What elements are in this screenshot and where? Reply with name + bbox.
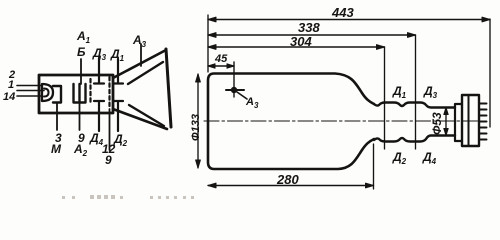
shield dashed column left <box>89 79 91 103</box>
svg-text:А2: А2 <box>73 142 88 158</box>
cathode <box>42 84 53 101</box>
extension line 280 right <box>373 144 375 189</box>
svg-text:Б: Б <box>77 45 86 59</box>
dimension line 443 <box>208 19 490 21</box>
dimension line 338 <box>208 34 416 36</box>
neck bottom profile <box>374 136 455 142</box>
svg-text:М: М <box>51 142 62 156</box>
dimension line 45 <box>208 65 234 67</box>
svg-text:443: 443 <box>331 5 354 20</box>
deflection plate D1 (top, with stem) <box>113 59 123 84</box>
modulator electrode (bracket) <box>53 86 61 103</box>
svg-text:45: 45 <box>214 53 228 65</box>
svg-text:А3: А3 <box>245 96 259 110</box>
svg-text:1: 1 <box>8 79 14 91</box>
extension line 338/section line <box>415 35 417 149</box>
A1 lead to pin 9 <box>79 103 81 131</box>
svg-text:280: 280 <box>276 172 299 187</box>
svg-text:9: 9 <box>105 153 112 167</box>
A3 pointer tick <box>237 92 247 99</box>
deflection plate D2 (bottom, with stem) <box>113 101 123 131</box>
funnel top slant <box>113 50 166 78</box>
heater lead pin 1 <box>17 90 44 92</box>
faint cropped caption remnants at bottom <box>62 195 194 199</box>
center line <box>204 120 480 122</box>
heater loop <box>44 89 49 97</box>
base cap divider <box>468 95 470 146</box>
screen coating diagonal top <box>128 62 163 84</box>
dimension line 280 <box>208 185 374 187</box>
svg-text:Д1: Д1 <box>392 84 407 100</box>
extension line left (bulb face) <box>207 15 209 72</box>
tube envelope rectangle (gun section, schematic) <box>39 75 113 113</box>
extension line 304/section line <box>384 47 386 149</box>
heater lead pin 14 <box>17 95 41 97</box>
neck top profile <box>374 103 455 108</box>
shield dashed column center, lead to pin 12 <box>108 77 110 109</box>
base cap <box>462 95 479 146</box>
lead from B label to A1 <box>80 59 82 84</box>
svg-text:Д3: Д3 <box>92 46 107 62</box>
svg-text:Ф133: Ф133 <box>190 114 202 141</box>
heater lead pin 2 <box>17 85 41 87</box>
svg-text:338: 338 <box>298 20 320 35</box>
extension line 443 right <box>489 19 491 127</box>
funnel screen face <box>166 49 171 127</box>
funnel bottom slant <box>113 109 167 129</box>
svg-text:Ф53: Ф53 <box>430 112 444 135</box>
deflection plate D4 (bottom, with stem) <box>94 101 104 131</box>
base pins <box>480 104 487 140</box>
anode A1 electrode (Sh shape) <box>74 84 86 103</box>
bulb outline <box>208 74 374 170</box>
svg-text:А1: А1 <box>76 29 91 45</box>
svg-text:304: 304 <box>290 34 312 49</box>
screen coating diagonal bottom <box>129 105 164 126</box>
svg-text:Д3: Д3 <box>423 84 438 100</box>
svg-text:А3: А3 <box>132 33 147 49</box>
svg-text:Д4: Д4 <box>422 150 437 166</box>
base skirt <box>455 104 462 141</box>
dimension line 304 <box>208 46 385 48</box>
svg-text:Д1: Д1 <box>110 47 125 63</box>
dimension line dia133 <box>197 74 199 168</box>
dimension line dia53 <box>445 108 447 136</box>
A3 side contact cross <box>233 62 235 97</box>
svg-text:Д2: Д2 <box>392 150 407 166</box>
modulator lead to pin 3 <box>56 103 58 131</box>
deflection plate D3 (top, with stem) <box>94 58 104 84</box>
lead A3 to funnel <box>140 44 142 66</box>
svg-text:14: 14 <box>3 91 15 103</box>
